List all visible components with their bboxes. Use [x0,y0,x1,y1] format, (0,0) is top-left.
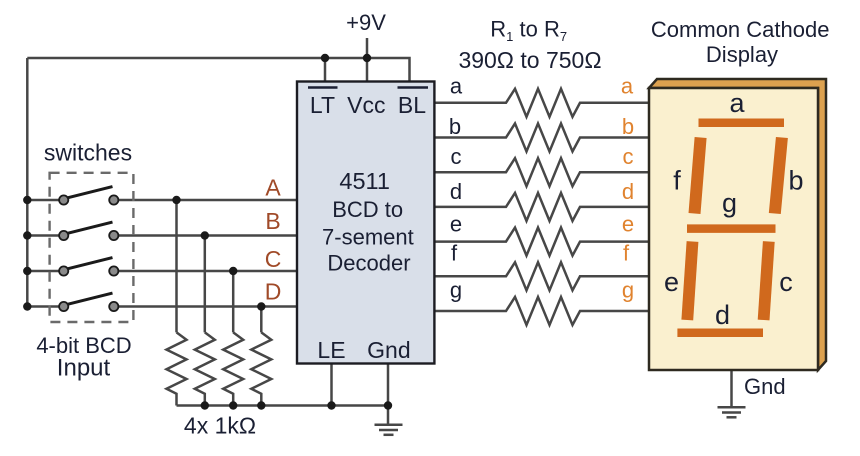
svg-text:f: f [451,241,458,266]
svg-text:c: c [779,267,793,297]
svg-text:D: D [265,279,282,305]
svg-text:d: d [450,179,462,204]
svg-text:d: d [622,179,634,204]
svg-text:7-sement: 7-sement [322,225,414,250]
svg-text:g: g [622,278,634,303]
svg-text:LT: LT [310,92,335,118]
svg-text:Input: Input [57,355,111,382]
svg-text:e: e [450,212,462,237]
svg-text:Decoder: Decoder [327,251,410,276]
svg-text:+9V: +9V [346,10,386,35]
svg-text:f: f [673,166,681,196]
svg-text:a: a [450,74,463,99]
svg-text:Vcc: Vcc [347,92,385,118]
svg-text:a: a [729,88,745,118]
svg-text:R1 to R7: R1 to R7 [490,17,567,45]
svg-text:BCD to: BCD to [332,197,403,222]
svg-text:a: a [621,74,634,99]
svg-text:Gnd: Gnd [367,337,410,363]
svg-text:BL: BL [398,92,426,118]
svg-text:b: b [788,166,803,196]
svg-text:Gnd: Gnd [744,374,786,399]
svg-text:Common Cathode: Common Cathode [651,17,830,42]
svg-text:g: g [722,188,737,218]
svg-text:e: e [622,212,634,237]
svg-text:B: B [265,208,280,234]
svg-text:A: A [265,174,281,200]
svg-text:g: g [450,278,462,303]
svg-text:e: e [664,267,679,297]
svg-text:b: b [449,114,461,139]
svg-text:4x 1kΩ: 4x 1kΩ [184,413,256,439]
svg-text:f: f [623,241,630,266]
svg-text:c: c [623,144,634,169]
svg-text:c: c [451,144,462,169]
svg-text:390Ω to 750Ω: 390Ω to 750Ω [458,47,601,73]
svg-text:switches: switches [44,140,132,166]
svg-text:4511: 4511 [339,168,390,194]
svg-text:Display: Display [706,42,778,67]
svg-text:C: C [265,246,282,272]
svg-text:LE: LE [317,337,345,363]
svg-text:d: d [715,300,730,330]
svg-text:b: b [622,114,634,139]
